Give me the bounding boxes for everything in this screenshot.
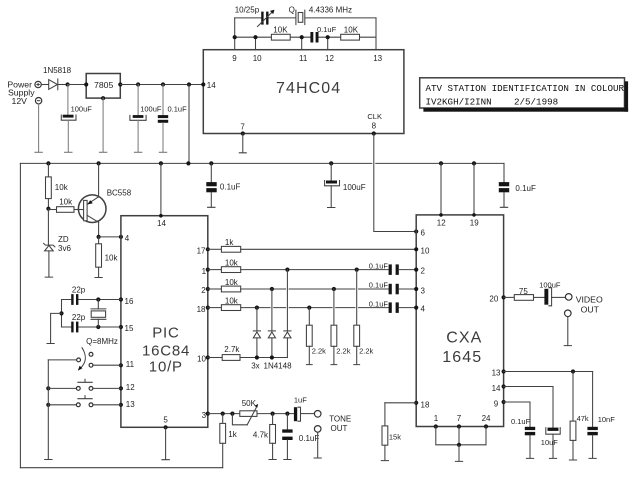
svg-text:7805: 7805	[94, 80, 113, 90]
wire CLK to CXA pin 6	[374, 134, 416, 232]
svg-text:10/P: 10/P	[149, 358, 183, 375]
wire pin2 row	[241, 288, 389, 290]
svg-text:0.1uF: 0.1uF	[220, 183, 241, 192]
svg-text:1: 1	[202, 267, 207, 276]
capacitor C4 0.1uF osc	[310, 25, 336, 43]
pin 14 74HC04	[201, 81, 216, 90]
wire node to PIC pin 4	[99, 235, 123, 239]
CXA pin edge dots	[414, 213, 506, 429]
junction pin3-wiper	[230, 412, 234, 416]
wire CXA pin14 row	[504, 386, 553, 388]
resistor R8 10k pin2	[208, 278, 241, 292]
capacitor C5 0.1uF logic rail	[206, 163, 240, 207]
resistor R4 10k base	[48, 198, 83, 213]
svg-text:10: 10	[197, 355, 206, 364]
CXA pin number labels	[421, 218, 502, 423]
capacitor C17 10uF	[541, 387, 560, 459]
wire emitter to rail	[98, 163, 100, 196]
svg-text:17: 17	[197, 247, 206, 256]
CXA ground bus pins 1 7 24	[436, 427, 486, 462]
pin labels 9 10 11 12 13	[232, 54, 382, 63]
svg-text:ATV STATION IDENTIFICATION IN: ATV STATION IDENTIFICATION IN COLOUR	[426, 83, 625, 94]
svg-text:4: 4	[421, 305, 426, 314]
svg-text:1uF: 1uF	[294, 395, 307, 404]
pin stubs oscillator	[235, 18, 376, 50]
label Power Supply 12V	[7, 80, 35, 106]
wire CXA pin13 row	[504, 371, 593, 373]
svg-text:Q=8MHz: Q=8MHz	[86, 337, 118, 346]
pin 7 74HC04 ground stub	[239, 123, 246, 153]
svg-text:100uF: 100uF	[71, 104, 93, 113]
svg-text:13: 13	[126, 400, 135, 409]
tone ground terminal	[314, 426, 321, 458]
resistor R15 4.7k	[253, 414, 276, 460]
resistor R9 10k pin18	[208, 297, 241, 311]
junction pin1-diode3	[285, 268, 289, 272]
5V logic rail	[20, 162, 504, 164]
resistor R7 10k pin1	[208, 259, 241, 273]
junction node 4	[97, 235, 101, 239]
svg-text:0.1uF: 0.1uF	[168, 105, 188, 114]
tone out terminal	[314, 411, 351, 434]
svg-text:TONE: TONE	[329, 415, 351, 424]
osc top wire	[235, 17, 376, 19]
osc lower wire	[235, 36, 376, 38]
title box	[420, 78, 628, 112]
trimmer capacitor CV 10/25p	[235, 5, 275, 26]
svg-text:BC558: BC558	[107, 189, 132, 198]
svg-text:18: 18	[197, 305, 206, 314]
wire rail to CXA pin19	[473, 163, 475, 215]
svg-text:0.1uF: 0.1uF	[511, 417, 531, 426]
svg-text:1: 1	[434, 414, 439, 423]
svg-text:0.1uF: 0.1uF	[515, 184, 536, 193]
minus terminal ground stub	[35, 104, 42, 152]
capacitor C1 100uF input	[61, 85, 92, 153]
svg-text:2.2k: 2.2k	[312, 346, 326, 355]
svg-text:11: 11	[299, 54, 308, 63]
wire CXA pin18 row	[385, 402, 416, 404]
svg-text:10K: 10K	[344, 25, 359, 34]
svg-text:12: 12	[325, 54, 334, 63]
PIC pin edge dots	[119, 214, 210, 430]
junction diode1 bottom	[255, 355, 259, 359]
svg-text:12: 12	[126, 383, 135, 392]
junction pin10	[253, 35, 257, 39]
switch S2 pushbutton	[46, 379, 121, 390]
capacitor C15 100uF video	[534, 280, 566, 306]
svg-text:6: 6	[421, 229, 426, 238]
svg-text:2.7k: 2.7k	[224, 345, 240, 354]
capacitor C9 22p	[71, 313, 86, 332]
svg-text:CLK: CLK	[367, 112, 382, 121]
svg-text:13: 13	[373, 54, 382, 63]
junction diode2 bottom	[270, 355, 274, 359]
resistor R6 1k pin17	[208, 238, 241, 252]
resistor R1 10K	[271, 25, 290, 40]
svg-text:0.1uF: 0.1uF	[369, 261, 389, 270]
svg-text:15k: 15k	[389, 433, 401, 442]
svg-text:5: 5	[163, 416, 168, 425]
svg-text:14: 14	[492, 384, 501, 393]
capacitor C7 0.1uF CXA rail	[499, 163, 536, 207]
resistor R5 10k collector	[95, 237, 118, 278]
svg-text:1645: 1645	[442, 349, 482, 366]
regulator U2 7805	[84, 74, 122, 101]
svg-text:4: 4	[125, 234, 130, 243]
junction crystal bottom	[96, 325, 100, 329]
svg-text:1N4148: 1N4148	[264, 362, 293, 371]
svg-text:1N5818: 1N5818	[43, 66, 72, 75]
diode D1 1N5818	[41, 66, 71, 90]
pin 8 CLK	[367, 112, 382, 136]
junction pin3-4.7k	[271, 412, 275, 416]
diode D2 1N4148	[253, 308, 260, 358]
svg-text:1k: 1k	[228, 430, 237, 439]
wire pin17 to CXA pin10	[241, 248, 417, 250]
junction pin18-2.2k	[307, 306, 311, 310]
title text	[426, 83, 625, 108]
transistor Q1 BC558	[78, 189, 131, 223]
svg-text:0.1uF: 0.1uF	[369, 299, 389, 308]
junction pin3-0.1uF	[285, 412, 289, 416]
resistor R14 1k	[220, 414, 238, 468]
capacitor C12 0.1uF	[369, 299, 416, 313]
svg-text:0.1uF: 0.1uF	[369, 281, 389, 290]
capacitor C13 0.1uF tone	[282, 414, 319, 460]
junction 5V rail a	[136, 82, 140, 86]
junction pin2-2.2k	[332, 287, 336, 291]
svg-text:12V: 12V	[12, 96, 28, 106]
zener ZD 3v6	[44, 209, 72, 277]
junction pin1-2.2k	[355, 268, 359, 272]
switch S3 pushbutton	[46, 396, 121, 407]
svg-text:7: 7	[457, 414, 462, 423]
junction 5V rail b	[161, 82, 165, 86]
7805 ground stub	[99, 98, 106, 152]
junction pin3-1k	[221, 412, 225, 416]
svg-text:100uF: 100uF	[539, 280, 561, 289]
capacitor C14 1uF tone	[294, 395, 314, 421]
resistor R12 2.2k	[331, 289, 351, 365]
svg-text:0.1uF: 0.1uF	[317, 25, 337, 34]
svg-text:13: 13	[492, 369, 501, 378]
svg-text:OUT: OUT	[331, 424, 348, 433]
wire 12V to regulator	[68, 84, 87, 86]
resistor R2 10K	[341, 25, 360, 40]
capacitor C11 0.1uF	[369, 281, 416, 295]
svg-text:4.7k: 4.7k	[253, 430, 269, 439]
svg-text:3: 3	[421, 286, 426, 295]
video ground terminal	[564, 310, 571, 346]
capacitor C2 100uF output	[130, 85, 162, 153]
power supply + terminal	[35, 81, 41, 87]
capacitor C3 0.1uF output	[158, 85, 187, 153]
svg-text:47k: 47k	[577, 414, 589, 423]
wire left rail drop	[19, 163, 21, 467]
svg-text:18: 18	[421, 400, 430, 409]
capacitor C10 0.1uF	[369, 261, 416, 275]
svg-text:3: 3	[202, 411, 207, 420]
wire drop 5V to logic rail	[188, 85, 190, 164]
power supply - terminal	[35, 98, 41, 104]
svg-text:OUT: OUT	[581, 305, 600, 315]
junction 12V input	[66, 82, 70, 86]
svg-text:IV2KGH/I2INN: IV2KGH/I2INN	[426, 97, 492, 108]
resistor R3 10k pullup	[46, 163, 69, 208]
resistor R10 2.7k pin10	[208, 345, 288, 360]
svg-text:100uF: 100uF	[343, 183, 366, 192]
svg-text:14: 14	[207, 81, 216, 90]
wire bottom ground rail	[20, 467, 222, 469]
svg-text:22p: 22p	[72, 286, 86, 295]
wire CXA pin9 row	[504, 401, 530, 403]
resistor R18 15k	[381, 403, 401, 461]
svg-text:10: 10	[421, 246, 430, 255]
svg-text:2.2k: 2.2k	[359, 346, 373, 355]
svg-text:PIC: PIC	[152, 324, 179, 341]
svg-text:2: 2	[201, 286, 206, 295]
wire pin3 row	[208, 413, 240, 415]
svg-text:VIDEO: VIDEO	[576, 295, 603, 305]
svg-text:0.1uF: 0.1uF	[299, 434, 320, 443]
svg-text:2: 2	[421, 267, 426, 276]
svg-text:10nF: 10nF	[598, 415, 616, 424]
svg-text:74HC04: 74HC04	[276, 80, 341, 97]
crystal X2 Q=8MHz	[86, 300, 118, 347]
wire 22p common	[61, 300, 63, 328]
capacitor C18 0.1uF	[511, 402, 535, 458]
svg-text:10K: 10K	[273, 25, 288, 34]
svg-text:10k: 10k	[225, 297, 239, 306]
svg-text:10/25p: 10/25p	[235, 5, 260, 14]
crystal X1 4.4336 MHz	[289, 5, 352, 24]
video out terminal	[565, 294, 603, 315]
diode D3 1N4148	[268, 289, 275, 358]
PIC pin number labels	[125, 219, 207, 425]
junction base divider	[46, 207, 50, 211]
svg-text:16: 16	[125, 297, 134, 306]
switch S1 toggle	[48, 348, 121, 371]
IC U3 PIC 16C84	[121, 216, 208, 428]
svg-text:22p: 22p	[72, 313, 86, 322]
svg-text:11: 11	[126, 360, 135, 369]
svg-text:10k: 10k	[59, 198, 73, 207]
svg-text:ZD: ZD	[58, 235, 69, 244]
svg-text:19: 19	[470, 218, 479, 227]
wire rail to CXA pin12	[440, 163, 442, 215]
capacitor C16 10nF	[587, 372, 615, 459]
diode D4 1N4148	[284, 270, 291, 358]
wire PIC pin16 row	[61, 299, 120, 301]
svg-text:50K: 50K	[242, 399, 257, 408]
rail junction dots	[46, 161, 476, 165]
wire pot to tone cap	[257, 413, 294, 415]
wire pin18 row	[241, 307, 389, 309]
svg-text:7: 7	[240, 123, 245, 132]
svg-text:10k: 10k	[55, 183, 69, 192]
svg-text:4.4336 MHz: 4.4336 MHz	[309, 5, 352, 14]
svg-text:10uF: 10uF	[541, 438, 559, 447]
resistor R11 2.2k	[306, 308, 326, 365]
svg-text:24: 24	[482, 414, 491, 423]
svg-text:CXA: CXA	[446, 329, 482, 346]
svg-text:75: 75	[519, 287, 528, 296]
svg-text:2.2k: 2.2k	[336, 346, 350, 355]
svg-text:3v6: 3v6	[58, 244, 71, 253]
IC U4 CXA 1645	[416, 215, 503, 427]
svg-text:1k: 1k	[225, 238, 234, 247]
pin 5 ground stub	[162, 427, 169, 459]
svg-text:Q: Q	[289, 5, 295, 14]
capacitor C8 22p	[71, 286, 86, 305]
svg-text:2/5/1998: 2/5/1998	[514, 97, 558, 108]
junction pin13-47k	[571, 369, 575, 373]
svg-text:8: 8	[372, 122, 377, 131]
resistor R17 47k	[569, 372, 589, 461]
svg-text:3x: 3x	[251, 362, 259, 371]
wire pin1 row	[241, 269, 389, 271]
wire 5V rail	[120, 84, 203, 86]
capacitor C6 100uF logic rail	[325, 163, 366, 207]
junction crystal top	[96, 297, 100, 301]
IC U1 74HC04	[203, 50, 404, 134]
potentiometer RV1 50K	[232, 399, 258, 425]
junction pin12	[326, 35, 330, 39]
svg-text:16C84: 16C84	[142, 342, 190, 359]
switch common ground stub	[45, 360, 52, 460]
svg-text:15: 15	[125, 324, 134, 333]
junction pin11	[300, 35, 304, 39]
junction pin9	[233, 35, 237, 39]
junction 5V rail c	[187, 82, 191, 86]
wire PIC pin15 row	[61, 326, 120, 328]
svg-text:10k: 10k	[105, 253, 119, 262]
resistor R13 2.2k	[354, 270, 374, 365]
svg-text:14: 14	[157, 219, 166, 228]
resistor R16 75 video	[504, 287, 534, 301]
svg-text:12: 12	[437, 218, 446, 227]
svg-text:10k: 10k	[225, 278, 239, 287]
ground stub crystal	[47, 313, 62, 343]
svg-text:10: 10	[253, 54, 262, 63]
junction CXA pin6	[414, 229, 418, 233]
svg-text:100uF: 100uF	[140, 105, 162, 114]
svg-text:20: 20	[489, 295, 498, 304]
svg-text:9: 9	[232, 54, 237, 63]
wire collector down	[98, 222, 100, 237]
junction pin18-diode1	[255, 306, 259, 310]
junction pin2-diode2	[270, 287, 274, 291]
junction 22p common	[59, 311, 63, 315]
svg-text:10k: 10k	[225, 259, 239, 268]
wire rail to PIC pin14	[160, 163, 162, 215]
svg-text:9: 9	[494, 399, 499, 408]
